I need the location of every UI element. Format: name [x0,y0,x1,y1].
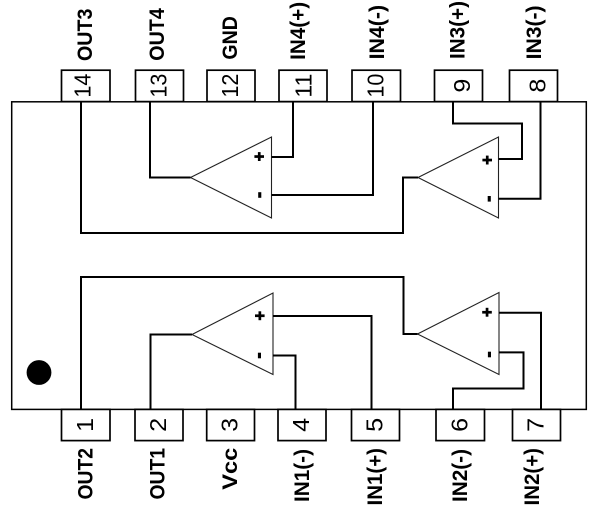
op-amp U1B minus mark [488,352,491,358]
wire U1C minus input to pin 8 [499,102,541,199]
svg-text:5: 5 [362,418,388,432]
pin 10 box [352,70,401,101]
pin 2 box [135,409,183,440]
svg-text:1: 1 [72,418,98,432]
wire U1C output to pin 14 [81,102,418,233]
pin 7 box [513,409,561,440]
svg-text:2: 2 [145,418,171,432]
IC body U1 [12,102,587,410]
pin 8 box [510,70,558,101]
svg-text:GND: GND [219,16,242,60]
svg-text:Vcc: Vcc [219,447,242,489]
pin 14 box [62,70,111,101]
svg-text:IN1(-): IN1(-) [291,449,314,502]
op-amp U1B plus mark [482,308,492,317]
svg-text:IN1(+): IN1(+) [364,448,387,506]
pin 3 box [207,409,255,440]
wire U1B minus input to pin 6 [453,352,524,409]
pin 12 box [207,70,255,101]
svg-text:OUT3: OUT3 [74,9,97,62]
op-amp U1C triangle (top-right, output pin 14) [418,137,499,218]
wire U1D plus input to pin 11 [272,102,294,157]
svg-text:OUT4: OUT4 [146,8,169,61]
svg-text:IN3(-): IN3(-) [523,5,546,59]
op-amp U1A minus mark [258,353,261,359]
svg-text:14: 14 [70,73,96,97]
op-amp U1C plus mark [482,156,492,165]
pin 6 box [436,409,485,440]
op-amp U1D minus mark [258,192,261,198]
pin 1 box [62,409,111,440]
wire pin 13 to U1D output [150,102,191,178]
wire U1A minus input to pin 4 [273,356,296,410]
wire U1B plus input to pin 7 [499,313,541,410]
pin 4 box [278,409,326,440]
op-amp U1B triangle (bottom-right, output pin 1) [418,293,500,375]
op-amp U1C minus mark [488,196,491,202]
op-amp U1D plus mark [254,152,264,161]
svg-text:10: 10 [362,74,388,98]
pin 11 box [279,70,327,101]
wire U1B output to pin 1 [81,277,418,409]
op-amp U1D triangle (top-left, output pin 13) [191,137,272,218]
svg-text:IN2(+): IN2(+) [521,448,544,506]
svg-text:11: 11 [290,74,316,98]
wire U1D minus input to pin 10 [272,102,374,195]
wire pin 2 to U1A output [151,335,193,410]
op-amp U1A plus mark [255,311,265,320]
pin 5 box [352,409,400,440]
svg-text:IN3(+): IN3(+) [447,1,470,59]
svg-text:3: 3 [217,418,243,432]
svg-text:OUT2: OUT2 [74,448,97,500]
svg-text:7: 7 [523,418,549,432]
svg-text:13: 13 [146,74,172,98]
svg-text:IN2(-): IN2(-) [449,449,472,502]
pin 1 marker dot [27,360,52,385]
svg-text:9: 9 [449,79,475,93]
svg-text:OUT1: OUT1 [146,448,169,500]
pin 9 box [435,70,483,101]
op-amp U1A triangle (bottom-left, output pin 2) [192,293,273,375]
svg-text:12: 12 [217,74,243,98]
svg-text:IN4(-): IN4(-) [366,5,389,60]
svg-text:6: 6 [446,418,472,432]
wire pin 9 to U1C plus input [453,102,522,159]
svg-text:4: 4 [288,418,314,432]
svg-text:IN4(+): IN4(+) [287,2,310,60]
wire U1A plus input to pin 5 [273,316,372,409]
svg-text:8: 8 [524,79,550,93]
pin 13 box [136,70,184,101]
